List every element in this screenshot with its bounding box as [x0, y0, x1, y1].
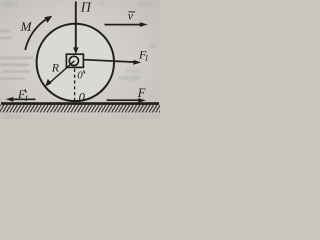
- svg-text:нвцгвн: нвцгвн: [119, 75, 141, 82]
- axle inner circle: [69, 56, 78, 65]
- force F1 arrowhead: [133, 60, 141, 65]
- svg-text:нвц вн: нвц вн: [4, 115, 22, 119]
- axle square: [66, 54, 83, 67]
- force P vertical line: [75, 2, 77, 50]
- svg-text:0: 0: [79, 91, 86, 105]
- svg-text:вцнв: вцнв: [126, 69, 139, 75]
- svg-text:1: 1: [145, 54, 149, 63]
- faint bleed-through text top-left: [2, 2, 18, 9]
- friction F'1 arrow (leftwards): [12, 98, 36, 100]
- faint bleed-through text bottom edge: [4, 115, 131, 121]
- wheel (large circle): [37, 24, 114, 101]
- moment M arc arrow: [25, 19, 47, 50]
- svg-text:П: П: [80, 1, 92, 16]
- svg-text:M: M: [20, 19, 33, 34]
- svg-text:вб: вб: [150, 44, 157, 50]
- ground hatching: [0, 105, 164, 113]
- force P arrowhead: [73, 47, 78, 54]
- force F arrow (rightwards, on ground): [107, 99, 140, 101]
- paper background: [0, 0, 160, 119]
- svg-text:v: v: [128, 8, 134, 22]
- svg-text:пв: пв: [98, 1, 104, 7]
- scan grain overlay: [0, 0, 160, 119]
- svg-text:0: 0: [77, 69, 83, 81]
- svg-text:F: F: [137, 86, 146, 100]
- velocity v arrow: [105, 24, 142, 26]
- force F1 line: [84, 60, 135, 62]
- faint bleed-through text right edge: [119, 44, 157, 82]
- velocity v arrowhead: [140, 22, 148, 27]
- radius R line: [48, 61, 75, 85]
- ground surface line: [1, 102, 159, 105]
- radius R arrowhead: [45, 79, 51, 87]
- svg-text:НВЦ: НВЦ: [2, 2, 18, 9]
- dashed centre line O'-O: [74, 69, 76, 102]
- force F arrowhead: [138, 98, 146, 103]
- svg-text:R: R: [51, 61, 60, 75]
- svg-text:нвц: нвц: [120, 115, 131, 119]
- faint bleed-through text lines left edge: [0, 30, 33, 80]
- moment M arrowhead: [44, 16, 52, 23]
- svg-text:1: 1: [24, 94, 28, 103]
- svg-text:ВЦН: ВЦН: [138, 2, 153, 9]
- friction F'1 arrowhead: [6, 97, 14, 102]
- faint bleed-through text top-right: [98, 1, 153, 9]
